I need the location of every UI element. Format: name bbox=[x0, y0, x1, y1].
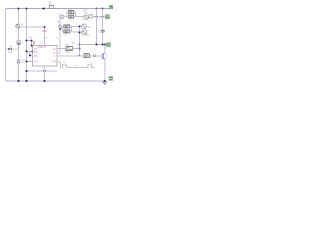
transistor Q1 bbox=[16, 24, 20, 28]
capacitor C3 box bbox=[101, 30, 105, 32]
wire Q2 emitter bbox=[104, 60, 106, 82]
wire vertical net V1 x=18.5 bbox=[18, 9, 20, 82]
wire R6 to x79.5 bbox=[72, 48, 79, 50]
wire base line y=56 bbox=[57, 55, 103, 57]
wire Q2 collector bbox=[104, 45, 106, 53]
wire y=71 line bbox=[27, 70, 58, 72]
red pin1 marker bbox=[33, 41, 36, 45]
lamp DS2 bbox=[82, 30, 87, 35]
fuse F1 on top bus bbox=[49, 5, 53, 8]
node bottom bus dots bbox=[18, 80, 20, 82]
wire vertical x=60 bbox=[59, 19, 61, 54]
inductor L1 hump bbox=[60, 15, 64, 19]
wire IC pin y=48.5 bbox=[57, 48, 66, 50]
svg-text:m: m bbox=[57, 13, 59, 16]
wire left border bbox=[5, 10, 7, 79]
pin text right bbox=[51, 47, 57, 64]
wire y=44.5 to terminal bbox=[80, 44, 107, 46]
wire IC left stubs from V2 bbox=[27, 41, 33, 62]
IC U1 body bbox=[33, 46, 58, 67]
background bbox=[0, 0, 120, 91]
resistor R6 box bbox=[66, 46, 72, 50]
transistor Q2 bbox=[103, 53, 105, 60]
tick before base bbox=[94, 55, 96, 57]
resistor R2 box top bbox=[69, 11, 74, 14]
lamp DS1 bbox=[82, 24, 87, 29]
node dots left stubs bbox=[31, 40, 33, 42]
wire IC bottom pin x=44.5 bbox=[44, 66, 46, 81]
wire to right terminals y=16.6 bbox=[92, 16, 105, 18]
terminal G4 bottom right bbox=[109, 77, 113, 81]
ground bbox=[103, 82, 107, 85]
node dash on bus bbox=[42, 8, 45, 10]
svg-text:HI: HI bbox=[53, 47, 56, 51]
node dots y71 bbox=[26, 70, 28, 72]
node base junction bbox=[44, 26, 46, 28]
svg-text:4P1: 4P1 bbox=[34, 50, 39, 54]
svg-text:4I7: 4I7 bbox=[34, 59, 38, 63]
svg-text:CDMH-1: CDMH-1 bbox=[37, 46, 47, 49]
wire base line y=27 bbox=[20, 26, 45, 28]
wire vertical net V2 x=26.5 bbox=[26, 9, 28, 82]
wire vertical x=102.5 with cap bbox=[102, 9, 104, 45]
node dots x79.5 bbox=[79, 26, 81, 28]
terminal G3 right mid bbox=[107, 43, 111, 47]
wire bridges cluster1 bbox=[67, 12, 84, 17]
wire vertical to IC top x=44.5 bbox=[44, 27, 46, 46]
node dot x60 bbox=[59, 25, 62, 28]
wire GPV stub and squiggle bbox=[57, 62, 60, 68]
pin text left bbox=[34, 47, 39, 63]
diode D2 on V1 bbox=[17, 60, 21, 63]
terminal G2 right bbox=[106, 15, 110, 19]
capacitor C1 on V1 bbox=[17, 41, 20, 45]
wire IC pin y=53 stub bbox=[57, 52, 60, 54]
wire vertical x=96.5 bbox=[96, 9, 98, 45]
terminal G1 top right bbox=[110, 5, 113, 8]
wire bottom bus bbox=[6, 79, 105, 81]
svg-text:2A: 2A bbox=[49, 3, 52, 6]
resistor R3 box bottom bbox=[69, 15, 74, 18]
node dots y44.5 bbox=[96, 44, 98, 46]
diode D1 with labels bbox=[6, 48, 19, 50]
resistor R7 box on base line bbox=[84, 54, 89, 58]
wire bridges cluster2 bbox=[60, 26, 82, 32]
capacitor C2 round bbox=[84, 15, 89, 20]
svg-text:R1x: R1x bbox=[43, 30, 48, 33]
node top bus dots bbox=[18, 8, 20, 10]
cluster2 resistor R5 box bottom bbox=[64, 30, 70, 33]
wire vertical x=79.5 bbox=[79, 26, 81, 55]
svg-text:GPV: GPV bbox=[51, 59, 57, 63]
node dots y16.6 bbox=[96, 16, 98, 18]
cluster2 resistor R4 box top bbox=[64, 25, 70, 28]
svg-text:mm: mm bbox=[64, 35, 68, 37]
svg-text:m: m bbox=[64, 61, 66, 64]
wire top bus bbox=[6, 9, 110, 11]
svg-text:4P2: 4P2 bbox=[34, 54, 39, 58]
